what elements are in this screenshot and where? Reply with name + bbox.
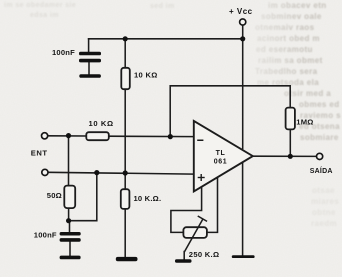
svg-text:obmes ed: obmes ed — [299, 100, 340, 109]
wire: pot left lead from op-amp bottom edge — [171, 184, 202, 232]
wire: C2 plate-to-ground stub — [69, 241, 71, 256]
potentiometer P1 wiper tick — [198, 216, 206, 221]
node: rail / R1 — [123, 36, 128, 41]
op-amp label TL 061 — [214, 150, 227, 165]
node: plus row / R4 — [123, 170, 128, 175]
resistor R2 10K (horizontal, to minus input) — [86, 132, 109, 140]
svg-text:10 KΩ: 10 KΩ — [89, 119, 114, 128]
potentiometer P1 250K body — [183, 227, 207, 238]
wire: 50-ohm bottom to junction — [68, 207, 70, 221]
resistor R3 50 ohm (vertical) — [64, 186, 75, 209]
op-amp plus sign — [198, 174, 205, 181]
svg-text:50Ω: 50Ω — [47, 191, 62, 200]
wire: pot right lead to op-amp bottom edge — [207, 175, 218, 232]
wire: top rail — [89, 38, 243, 40]
wire: minus input row — [48, 135, 87, 137]
node: 50-ohm bottom / C2 — [66, 218, 71, 223]
svg-text:061: 061 — [214, 158, 227, 165]
svg-text:1MΩ: 1MΩ — [296, 117, 313, 126]
potentiometer P1 wiper arm — [184, 216, 206, 259]
node: minus row / feedback — [168, 134, 173, 139]
svg-text:100nF: 100nF — [34, 231, 57, 240]
ground under pot wiper — [175, 259, 192, 262]
wire: C2 stub from junction — [69, 221, 71, 233]
terminal SAIDA — [317, 153, 323, 159]
wire: 1M bottom to output row — [289, 129, 291, 157]
svg-text:edsa im: edsa im — [30, 12, 59, 19]
ground under op-amp V- — [232, 255, 255, 258]
resistor R4 10K (bottom, vertical) — [121, 189, 130, 209]
svg-text:acinort obed m: acinort obed m — [257, 34, 320, 43]
terminal ENT upper — [42, 133, 48, 139]
svg-text:10 KΩ: 10 KΩ — [134, 71, 158, 80]
svg-text:ed eseramotu: ed eseramotu — [256, 45, 313, 54]
svg-text:TL: TL — [216, 150, 226, 157]
wire: op-amp V- pin to ground — [242, 160, 244, 255]
svg-text:sobmiare: sobmiare — [300, 133, 339, 142]
svg-text:10 K.Ω.: 10 K.Ω. — [134, 194, 162, 203]
svg-text:miares: miares — [311, 197, 339, 206]
capacitor C1 100nF plates — [79, 52, 101, 56]
ground under C2 — [60, 256, 81, 260]
terminal +Vcc — [240, 19, 246, 25]
op-amp minus sign — [197, 140, 203, 142]
capacitor C2 100nF plates — [60, 232, 81, 236]
wire: Vcc terminal drop — [242, 25, 244, 148]
svg-text:sobminev oale: sobminev oale — [261, 12, 322, 21]
svg-text:sed im: sed im — [150, 3, 175, 10]
svg-text:im obacev etn: im obacev etn — [268, 1, 327, 10]
node: output / 1M — [288, 154, 293, 159]
svg-text:railim sa obmet: railim sa obmet — [258, 56, 323, 65]
node: minus row / 50-ohm branch — [66, 133, 71, 138]
ghost bleed-through text top right — [255, 1, 341, 142]
svg-text:otsae: otsae — [312, 186, 335, 195]
node: rail / Vcc — [240, 36, 245, 41]
svg-text:otsir med a: otsir med a — [284, 89, 331, 98]
node: plus row / riser — [94, 170, 99, 175]
resistor R5 1M (vertical, feedback) — [286, 108, 295, 130]
resistor R1 10K (top, vertical) — [121, 68, 130, 89]
wire: feedback rail — [170, 86, 290, 137]
svg-text:ENT: ENT — [31, 148, 48, 157]
svg-text:+ Vcc: + Vcc — [229, 7, 253, 16]
wire: junction to plus row riser — [69, 173, 97, 221]
wire: capacitor C1 branch from rail — [88, 39, 90, 53]
svg-text:raedm: raedm — [311, 219, 337, 228]
ground under C1 — [79, 74, 101, 78]
terminal ENT lower — [42, 169, 48, 175]
op-amp U1 TL061 triangle — [194, 121, 253, 191]
svg-text:otnemaiv raos: otnemaiv raos — [255, 23, 315, 32]
svg-text:im se obedamer sie: im se obedamer sie — [4, 2, 76, 9]
wire: plus input row — [48, 172, 194, 174]
svg-text:100nF: 100nF — [52, 48, 75, 57]
wire: output row to SAIDA — [253, 155, 317, 157]
wire: R1/R4 column at x=125 — [124, 39, 126, 69]
svg-text:obtne: obtne — [312, 208, 336, 217]
wire: C1 plate-to-ground stub — [88, 62, 90, 76]
wire: 50-ohm column down from minus row — [68, 136, 70, 187]
svg-text:Trabedlho sera: Trabedlho sera — [255, 67, 318, 76]
svg-text:SAÍDA: SAÍDA — [310, 166, 333, 175]
svg-text:250 K.Ω: 250 K.Ω — [189, 250, 220, 259]
ground under R4 — [116, 257, 138, 261]
